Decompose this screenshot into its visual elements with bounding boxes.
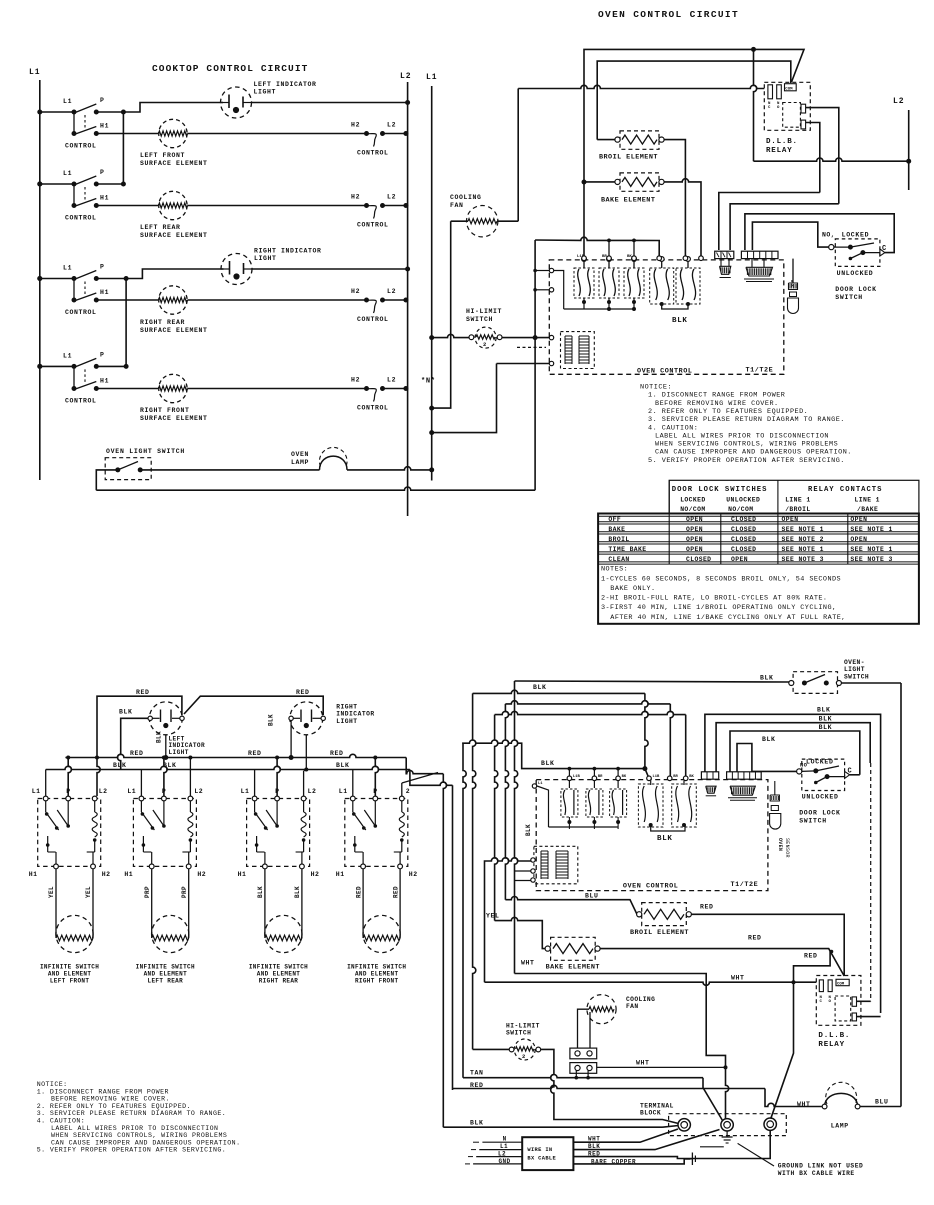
wire element leads 3	[264, 869, 266, 938]
wire pin stubs from BLK feed (bottom)	[568, 769, 570, 776]
component hatched A (bottom)	[706, 786, 716, 793]
oven control module (top) dashed box	[549, 260, 784, 374]
wire relay coil pin2 drop	[806, 123, 820, 193]
svg-text:CAN CAUSE IMPROPER AND DANGERO: CAN CAUSE IMPROPER AND DANGEROUS OPERATI…	[51, 1139, 241, 1146]
svg-text:BLK: BLK	[336, 762, 350, 769]
wire hi-limit right to oven control L1 pin	[502, 337, 549, 339]
pin L1 (bottom box left edge)	[532, 784, 536, 788]
wire relay pin1 to riser (bottom)	[857, 1000, 871, 1002]
oven sensor (bottom)	[770, 781, 781, 829]
svg-text:LOCKED: LOCKED	[842, 231, 870, 238]
svg-text:L1: L1	[63, 170, 72, 177]
wire hi-limit right (bottom)	[541, 1049, 679, 1123]
svg-text:BLK: BLK	[541, 760, 555, 767]
svg-text:LEFT INDICATOR: LEFT INDICATOR	[254, 81, 317, 88]
wire broil left	[597, 139, 615, 141]
svg-text:LIGHT: LIGHT	[336, 718, 357, 725]
svg-text:L2: L2	[308, 788, 317, 795]
svg-text:OPEN: OPEN	[686, 516, 703, 523]
wire TAN line to terminal	[463, 1075, 703, 1078]
wire bus C riser (cooling fan branch)	[517, 89, 519, 222]
wire row 3 element to H2	[188, 299, 367, 301]
svg-text:WITH BX CABLE WIRE: WITH BX CABLE WIRE	[778, 1170, 855, 1177]
svg-text:OVEN LIGHT SWITCH: OVEN LIGHT SWITCH	[106, 448, 185, 455]
control switch H2-L2 row 1	[351, 122, 396, 157]
svg-text:FAN: FAN	[626, 1003, 639, 1010]
terminal screw 3	[764, 1118, 776, 1130]
svg-text:SWITCH: SWITCH	[844, 673, 869, 680]
wire bus C (L1 feed to relay)	[518, 85, 764, 88]
wire RED line to lamp	[453, 1085, 766, 1088]
oven light switch (bottom)	[789, 672, 842, 694]
pin T1 L1	[549, 335, 553, 339]
wire BLK bus	[46, 766, 410, 769]
svg-text:NOTICE:: NOTICE:	[37, 1081, 68, 1088]
svg-text:OVEN-: OVEN-	[844, 659, 865, 666]
wire plug2 WHT link	[597, 1066, 726, 1068]
oven control box top pins (bottom)	[567, 775, 694, 781]
svg-text:BROIL: BROIL	[608, 536, 629, 543]
ground symbol BX	[690, 1153, 695, 1166]
wire nested line 1	[705, 714, 881, 1013]
wire relay feed A to connector	[719, 193, 820, 251]
svg-text:BR: BR	[598, 775, 603, 779]
svg-text:CLOSED: CLOSED	[731, 536, 756, 543]
wire vertical feed v2 (RED)	[452, 785, 454, 1090]
svg-text:COOKTOP CONTROL CIRCUIT: COOKTOP CONTROL CIRCUIT	[152, 63, 308, 74]
svg-text:CONTROL: CONTROL	[357, 316, 389, 323]
svg-text:RELAY: RELAY	[818, 1041, 845, 1049]
svg-text:INFINITE SWITCH: INFINITE SWITCH	[347, 964, 406, 971]
oven sensor (top)	[788, 259, 799, 314]
svg-text:H1: H1	[100, 378, 109, 385]
wire lamp to L1 rail	[347, 467, 432, 470]
svg-text:2: 2	[406, 788, 410, 795]
svg-text:RIGHT REAR: RIGHT REAR	[140, 319, 185, 326]
door lock switch (bottom)	[797, 759, 852, 801]
wire fan branch riser to L1	[432, 221, 451, 408]
wire L2 oven stub	[908, 110, 910, 190]
wire door lock C to connector	[745, 214, 894, 253]
surface element row 1	[159, 119, 188, 147]
table notes text	[601, 566, 846, 622]
svg-text:SWITCH: SWITCH	[799, 818, 827, 825]
transformer T1 (bottom oven control)	[534, 846, 578, 884]
wire BLK line to terminal	[443, 1126, 662, 1128]
terminal screw 1	[678, 1119, 690, 1131]
svg-text:H1: H1	[238, 871, 247, 878]
svg-text:L2: L2	[387, 377, 396, 384]
wire T1 bracket to W1 neutral drop	[515, 870, 531, 872]
wire RED bus	[65, 754, 406, 757]
wire fan to bus riser	[497, 220, 518, 222]
wire row 2 L2 connection	[383, 205, 408, 207]
wire row 1 P line	[96, 111, 123, 113]
svg-text:SEE NOTE 3: SEE NOTE 3	[850, 556, 892, 563]
cooktop row 1 control switch	[37, 97, 109, 150]
oven control module (bottom) dashed box	[536, 780, 768, 891]
wire BLK left indicator drop	[117, 718, 147, 769]
svg-text:SENSOR: SENSOR	[784, 838, 790, 858]
svg-text:L1: L1	[241, 788, 250, 795]
svg-text:BLK: BLK	[819, 724, 833, 731]
infinite switch 4 box	[339, 788, 410, 869]
svg-text:/BAKE: /BAKE	[857, 506, 878, 513]
svg-text:SWITCH: SWITCH	[835, 294, 863, 301]
wire connector riser block1a	[720, 259, 722, 267]
svg-text:RIGHT INDICATOR: RIGHT INDICATOR	[254, 248, 322, 255]
svg-text:COOLING: COOLING	[450, 194, 482, 201]
wire row 4 P line	[96, 365, 126, 367]
svg-text:OFF: OFF	[608, 516, 621, 523]
wire oven light return	[96, 487, 535, 490]
wire L2 cooktop rail	[407, 82, 409, 516]
svg-text:L1: L1	[426, 73, 438, 82]
svg-text:RIGHT REAR: RIGHT REAR	[259, 978, 299, 985]
wire WHT out to screw1	[573, 1129, 678, 1142]
wire RED relay detour	[794, 950, 831, 982]
door lock switch (top)	[822, 231, 886, 276]
svg-text:OPEN: OPEN	[850, 536, 867, 543]
svg-text:RED: RED	[248, 750, 262, 757]
terminal screw 2	[721, 1119, 733, 1131]
svg-text:WHT: WHT	[731, 974, 745, 981]
svg-text:3. SERVICER PLEASE RETURN DIAG: 3. SERVICER PLEASE RETURN DIAGRAM TO RAN…	[37, 1110, 227, 1117]
wire bare copper ground	[573, 1159, 690, 1164]
wire right indicator bottom drop	[305, 735, 307, 770]
svg-text:NO/COM: NO/COM	[680, 506, 705, 513]
svg-text:RED: RED	[296, 689, 310, 696]
svg-text:RELAY: RELAY	[766, 147, 793, 155]
wire BLU line	[505, 897, 637, 915]
wire RED bus to v1 riser	[406, 758, 443, 774]
wire vertical feed v6 (BLU)	[505, 704, 508, 900]
wire nested line 3	[730, 731, 860, 775]
svg-text:CONTROL: CONTROL	[65, 143, 97, 150]
table door lock switches / relay contacts	[598, 480, 919, 624]
svg-text:RED: RED	[330, 750, 344, 757]
wire bake right to oven control	[664, 179, 701, 257]
svg-text:H2: H2	[409, 871, 418, 878]
svg-text:NOTICE:: NOTICE:	[640, 384, 672, 392]
svg-text:RED: RED	[392, 886, 399, 898]
svg-text:BLK: BLK	[789, 280, 793, 288]
svg-text:BLK: BLK	[156, 731, 163, 743]
svg-text:SURFACE ELEMENT: SURFACE ELEMENT	[140, 327, 208, 334]
indicator light left (bottom)	[148, 702, 184, 735]
wire row 3 P line	[96, 278, 126, 280]
svg-text:SEE NOTE 3: SEE NOTE 3	[782, 556, 824, 563]
oven light switch	[105, 458, 151, 480]
wire return riser to hi-limit node	[534, 338, 536, 491]
svg-text:5. VERIFY PROPER OPERATION AFT: 5. VERIFY PROPER OPERATION AFTER SERVICI…	[37, 1147, 227, 1154]
svg-text:D.L.B.: D.L.B.	[818, 1032, 850, 1040]
svg-text:LIGHT: LIGHT	[844, 666, 865, 673]
wire door lock aux dashed	[870, 763, 872, 1001]
svg-text:OPEN: OPEN	[686, 536, 703, 543]
svg-text:BLK: BLK	[119, 709, 133, 716]
svg-text:L2: L2	[387, 194, 396, 201]
svg-text:DOOR LOCK: DOOR LOCK	[835, 286, 876, 293]
control switch H2-L2 row 4	[351, 377, 396, 412]
svg-text:BLK: BLK	[657, 835, 673, 843]
svg-text:RED: RED	[804, 953, 818, 960]
svg-text:BAKE ELEMENT: BAKE ELEMENT	[601, 197, 655, 205]
svg-text:BAKE: BAKE	[608, 526, 625, 533]
svg-text:AND ELEMENT: AND ELEMENT	[48, 971, 92, 978]
BX cable box	[522, 1137, 573, 1170]
svg-text:H1: H1	[124, 871, 133, 878]
wire row 1 indicator to L2	[252, 102, 408, 104]
svg-text:1-CYCLES 60 SECONDS, 8 SECONDS: 1-CYCLES 60 SECONDS, 8 SECONDS BROIL ONL…	[601, 575, 841, 583]
svg-text:D.L.B.: D.L.B.	[766, 138, 798, 146]
relay contact bank (top oven control)	[551, 255, 644, 311]
pin L2a	[549, 288, 553, 292]
svg-text:2. REFER ONLY TO FEATURES EQUI: 2. REFER ONLY TO FEATURES EQUIPPED.	[648, 408, 808, 416]
svg-text:NO,: NO,	[822, 231, 835, 238]
wire bus line 4	[495, 711, 686, 714]
wire oven light to right rail	[841, 682, 901, 684]
svg-text:BX CABLE: BX CABLE	[527, 1156, 556, 1162]
wire L1 pin drop 4	[352, 770, 354, 797]
wire connector riser block2	[751, 259, 753, 268]
wire bus line 1 (oven light)	[515, 681, 792, 682]
dot L1 row4	[37, 364, 42, 369]
svg-text:BLK: BLK	[257, 886, 264, 898]
svg-text:BLOCK: BLOCK	[640, 1110, 661, 1117]
relay DLB (bottom)	[816, 976, 861, 1050]
svg-text:DOOR LOCK: DOOR LOCK	[799, 810, 840, 817]
svg-text:LABEL ALL WIRES PRIOR TO DISCO: LABEL ALL WIRES PRIOR TO DISCONNECTION	[51, 1125, 218, 1132]
svg-text:L1: L1	[63, 98, 72, 105]
component hatched B (bottom)	[730, 786, 755, 795]
wire oven control left riser	[534, 240, 536, 338]
svg-text:L2: L2	[893, 97, 905, 106]
svg-text:PRP: PRP	[144, 886, 151, 898]
broil element (bottom)	[637, 903, 692, 926]
svg-text:OPEN: OPEN	[850, 516, 867, 523]
cooling fan (bottom)	[587, 995, 616, 1024]
svg-text:WIRE IN: WIRE IN	[527, 1147, 552, 1153]
wire relay pin2 to riser (bottom)	[857, 1016, 881, 1018]
svg-text:TERMINAL: TERMINAL	[640, 1103, 674, 1110]
wire element leads 2	[151, 869, 153, 938]
svg-text:LOCKED: LOCKED	[680, 496, 705, 503]
surface element 2 (bottom)	[152, 915, 189, 952]
wire row 3 indicator to L2	[252, 268, 408, 270]
svg-text:UNLOCKED: UNLOCKED	[802, 794, 839, 801]
wire bus line 3	[505, 701, 670, 704]
svg-text:LOCKED: LOCKED	[806, 759, 834, 766]
wire right indicator left pin drop	[290, 721, 292, 758]
terminal block dashed box	[669, 1114, 787, 1136]
wire L1 pin drop 3	[254, 770, 256, 797]
wire BLK bus to v2 riser	[410, 770, 453, 786]
infinite switch 3 box	[241, 788, 317, 869]
wire bus A (to DLB COM)	[584, 49, 804, 182]
svg-text:L2: L2	[400, 72, 412, 81]
svg-text:CONTROL: CONTROL	[357, 405, 389, 412]
svg-text:1. DISCONNECT RANGE FROM POWER: 1. DISCONNECT RANGE FROM POWER	[37, 1088, 169, 1095]
svg-text:H2: H2	[311, 871, 320, 878]
relay contact bank 2 (top oven control)	[650, 257, 700, 325]
svg-text:BAKE ONLY.: BAKE ONLY.	[610, 585, 655, 593]
svg-text:OPEN: OPEN	[686, 546, 703, 553]
svg-text:LAMP: LAMP	[831, 1123, 849, 1130]
svg-text:OVEN CONTROL CIRCUIT: OVEN CONTROL CIRCUIT	[598, 9, 739, 20]
wire RED out to screw3	[573, 1131, 770, 1159]
wire L2 input	[476, 1156, 522, 1158]
pin T1 N	[549, 361, 553, 365]
surface element row 3	[159, 286, 188, 314]
wire L2 pin riser box4	[401, 783, 403, 796]
pin stubs L2a bus	[608, 240, 610, 256]
svg-text:BEFORE REMOVING WIRE COVER.: BEFORE REMOVING WIRE COVER.	[655, 400, 779, 408]
svg-text:T1/T2E: T1/T2E	[731, 881, 759, 889]
svg-text:OPEN: OPEN	[686, 526, 703, 533]
svg-text:BR: BR	[673, 775, 678, 779]
wire W1 neutral line	[515, 974, 726, 1065]
svg-text:*N*: *N*	[421, 378, 436, 386]
wire L1 left rail	[39, 80, 41, 480]
svg-text:HI-LIMIT: HI-LIMIT	[506, 1023, 540, 1030]
svg-text:WHEN SERVICING CONTROLS, WIRIN: WHEN SERVICING CONTROLS, WIRING PROBLEMS	[51, 1132, 227, 1139]
wire plug stubs to TAN line	[575, 1071, 577, 1078]
svg-text:H2: H2	[351, 288, 360, 295]
svg-text:SEE NOTE 2: SEE NOTE 2	[782, 536, 824, 543]
wire broil right to oven control	[664, 140, 685, 257]
svg-text:L1B: L1B	[573, 775, 581, 779]
svg-text:L1: L1	[127, 788, 136, 795]
wire vertical feed v7 (neutral)	[515, 681, 518, 871]
svg-text:LEFT FRONT: LEFT FRONT	[140, 152, 185, 159]
wire ground link extension	[700, 1146, 724, 1148]
wire fan drops	[578, 1009, 590, 1048]
svg-text:LEFT REAR: LEFT REAR	[148, 978, 184, 985]
svg-text:SEE NOTE 1: SEE NOTE 1	[850, 546, 892, 553]
wire v4 corner (bus line 2)	[473, 690, 645, 693]
cooktop row 2 control switch	[37, 169, 109, 222]
svg-text:LIGHT: LIGHT	[169, 749, 189, 756]
wire row 2 element line	[96, 205, 158, 207]
svg-text:YEL: YEL	[48, 886, 55, 898]
wire vertical feed v1 (BLK)	[443, 774, 446, 1127]
svg-text:H1: H1	[100, 123, 109, 130]
wire vertical feed v5 (YEL)	[495, 715, 498, 921]
wire door lock NO to connector	[830, 244, 832, 246]
svg-text:L1: L1	[63, 265, 72, 272]
wire relay feed B to connector	[730, 204, 839, 250]
svg-text:LINE 1: LINE 1	[785, 496, 810, 503]
svg-text:L2: L2	[194, 788, 203, 795]
svg-text:BLU: BLU	[585, 893, 599, 900]
svg-text:BK: BK	[622, 775, 627, 779]
wire bus A riser to oven control pin	[583, 88, 585, 90]
svg-text:H2: H2	[102, 871, 111, 878]
wire row 1 L2 connection	[383, 133, 408, 135]
svg-text:L1: L1	[339, 788, 348, 795]
svg-text:OVEN: OVEN	[291, 451, 309, 458]
ground symbol terminal	[722, 1130, 733, 1143]
svg-text:RED: RED	[136, 689, 150, 696]
surface element 3 (bottom)	[265, 915, 302, 952]
wire broil RED to relay COM	[691, 914, 844, 976]
wire L1 pin drop 2	[140, 770, 142, 797]
svg-text:AFTER 40 MIN, LINE 1/BAKE CYCL: AFTER 40 MIN, LINE 1/BAKE CYCLING ONLY A…	[610, 614, 846, 622]
notice text block (bottom)	[37, 1081, 241, 1154]
wire BLK diagonal to screw1	[663, 1126, 679, 1128]
svg-text:BLK: BLK	[294, 886, 301, 898]
svg-text:CONTROL: CONTROL	[65, 309, 97, 316]
wire row 3 L2 connection	[383, 299, 408, 301]
leader line ground note	[738, 1143, 774, 1166]
wire row 4 element to H2	[188, 388, 367, 390]
control switch H2-L2 row 2	[351, 194, 396, 229]
wire bus B (to DLB COM box)	[597, 61, 791, 140]
wire RED jumper left indicator	[97, 696, 182, 796]
svg-text:BLU: BLU	[875, 1099, 889, 1106]
svg-text:NOTES:: NOTES:	[601, 566, 628, 574]
svg-text:AND ELEMENT: AND ELEMENT	[144, 971, 188, 978]
wire L2 feed line	[754, 158, 909, 161]
svg-text:SURFACE ELEMENT: SURFACE ELEMENT	[140, 232, 208, 239]
svg-text:INDICATOR: INDICATOR	[336, 711, 375, 718]
svg-text:CLOSED: CLOSED	[731, 526, 756, 533]
connector block main (bottom)	[727, 772, 762, 779]
wire W1 neutral drop	[514, 871, 516, 974]
oven control box top pins	[582, 256, 704, 261]
transformer T1 (top oven control)	[561, 332, 595, 369]
svg-text:CLOSED: CLOSED	[686, 556, 711, 563]
svg-text:OPEN: OPEN	[782, 516, 799, 523]
wire N riser to L1 rail	[432, 364, 497, 433]
svg-text:H1: H1	[29, 871, 38, 878]
svg-text:AND ELEMENT: AND ELEMENT	[355, 971, 399, 978]
svg-text:INFINITE SWITCH: INFINITE SWITCH	[136, 964, 195, 971]
svg-text:BLK: BLK	[762, 736, 776, 743]
svg-text:H1: H1	[100, 195, 109, 202]
svg-text:2. REFER ONLY TO FEATURES EQUI: 2. REFER ONLY TO FEATURES EQUIPPED.	[37, 1103, 191, 1110]
svg-text:PRP: PRP	[181, 886, 188, 898]
notice text block (top)	[640, 384, 852, 465]
svg-text:BAKE ELEMENT: BAKE ELEMENT	[546, 964, 600, 972]
svg-text:RELAY CONTACTS: RELAY CONTACTS	[808, 486, 882, 494]
svg-text:CONTROL: CONTROL	[357, 150, 389, 157]
svg-text:4. CAUTION:: 4. CAUTION:	[648, 424, 698, 432]
svg-text:WHT: WHT	[521, 960, 535, 967]
svg-text:LINE 1: LINE 1	[855, 496, 880, 503]
component hatched B (top)	[746, 267, 773, 276]
svg-text:CONTROL: CONTROL	[357, 222, 389, 229]
wire bus line 3 drop to pin	[670, 704, 673, 777]
svg-text:CLEAN: CLEAN	[608, 556, 629, 563]
wire junction row1-row2	[122, 112, 124, 184]
svg-text:BLK: BLK	[819, 715, 833, 722]
svg-text:DOOR LOCK SWITCHES: DOOR LOCK SWITCHES	[672, 486, 768, 494]
svg-text:3. SERVICER PLEASE RETURN DIAG: 3. SERVICER PLEASE RETURN DIAGRAM TO RAN…	[648, 416, 845, 424]
svg-text:BLK: BLK	[817, 707, 831, 714]
connector block 2-1 (bottom)	[701, 772, 718, 779]
svg-text:NO/COM: NO/COM	[728, 506, 753, 513]
wire row 2 P line	[96, 183, 123, 185]
wire row 2 element to H2	[188, 205, 367, 207]
wire vertical feed v3 (TAN / WHT bus)	[463, 743, 466, 1077]
svg-text:BLK: BLK	[525, 824, 532, 836]
cooling fan (top)	[467, 206, 498, 237]
wire L1 input	[479, 1149, 522, 1151]
wire BLK out to screw2	[573, 1130, 719, 1150]
svg-text:INFINITE SWITCH: INFINITE SWITCH	[249, 964, 308, 971]
